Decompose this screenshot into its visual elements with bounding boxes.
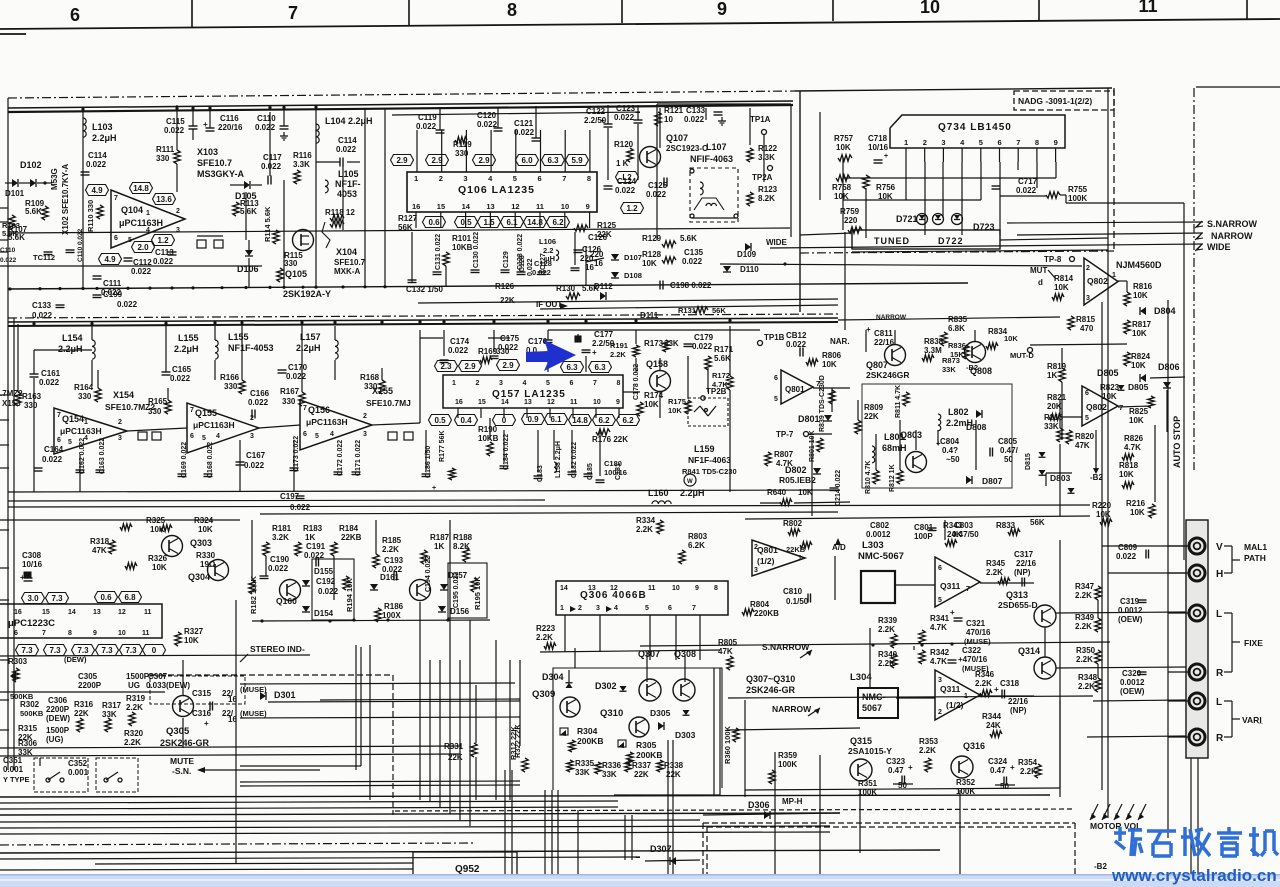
- capacitor C801: [914, 523, 937, 541]
- svg-text:2SA1015-Y: 2SA1015-Y: [848, 746, 892, 756]
- svg-text:Q808: Q808: [970, 366, 992, 376]
- transistor Q314: [1018, 646, 1056, 679]
- node hex 6.2c: [617, 415, 640, 426]
- svg-text:2.2K: 2.2K: [126, 703, 143, 712]
- IC Q734 LB1450: [890, 115, 1065, 148]
- svg-text:D101: D101: [5, 189, 25, 198]
- svg-text:0.1/50: 0.1/50: [786, 597, 809, 606]
- node hex 6.1: [501, 217, 524, 228]
- Q106 bottom pin stubs: [416, 212, 590, 228]
- wire q807 area: [838, 232, 1060, 345]
- svg-text:D722: D722: [938, 236, 964, 246]
- svg-text:0.022: 0.022: [268, 564, 289, 573]
- svg-text:56K: 56K: [398, 223, 413, 232]
- resistor R316: [74, 700, 94, 732]
- Q157 bottom pin stubs: [458, 408, 619, 418]
- svg-text:0: 0: [152, 646, 157, 655]
- svg-text:R318: R318: [90, 537, 110, 546]
- svg-text:2.2K: 2.2K: [1076, 655, 1093, 664]
- wire if verticals: [18, 330, 420, 492]
- svg-text:R326: R326: [148, 554, 168, 563]
- resistor R327: [175, 627, 204, 646]
- resistor R755: [1000, 185, 1184, 203]
- svg-text:L106: L106: [539, 237, 556, 246]
- svg-text:14.8: 14.8: [527, 218, 543, 227]
- connector jack L4: [1189, 693, 1205, 709]
- resistor R172: [712, 371, 733, 390]
- IC uPC1223C box: [0, 604, 162, 638]
- svg-text:R818: R818: [1119, 461, 1139, 470]
- IF band bus line 1: [8, 318, 838, 322]
- wire tuned right: [1000, 238, 1108, 240]
- svg-text:0.4?: 0.4?: [942, 446, 958, 455]
- svg-text:C321: C321: [966, 619, 986, 628]
- op-amp Q802 second: [1082, 386, 1118, 426]
- resistor R821: [1047, 393, 1067, 420]
- svg-text:R187: R187: [430, 533, 450, 542]
- svg-text:X155: X155: [372, 386, 393, 396]
- svg-text:330: 330: [496, 347, 510, 356]
- svg-text:2SK246-GR: 2SK246-GR: [160, 738, 210, 748]
- transistor Q307: [638, 649, 661, 701]
- svg-text:S.NARROW: S.NARROW: [1207, 219, 1258, 229]
- svg-text:Q316: Q316: [963, 741, 985, 751]
- node hex 2.9 b: [426, 155, 449, 166]
- svg-text:330: 330: [156, 154, 170, 163]
- wire topleft verticals: [246, 108, 385, 287]
- svg-text:10K: 10K: [642, 259, 657, 268]
- svg-text:0.022: 0.022: [153, 257, 174, 266]
- svg-text:R359: R359: [778, 751, 798, 760]
- svg-text:X153: X153: [2, 399, 21, 408]
- svg-text:7: 7: [1016, 138, 1020, 147]
- node hex 2.9 d: [459, 361, 482, 372]
- capacitor C113: [153, 248, 177, 266]
- svg-text:5: 5: [68, 439, 72, 446]
- svg-text:10K: 10K: [1119, 470, 1134, 479]
- svg-text:1K: 1K: [305, 533, 315, 542]
- motor vol arrows: [1090, 804, 1146, 820]
- diode D723: [973, 222, 995, 232]
- left edge vertical: [8, 98, 14, 770]
- svg-text:C168 0.022: C168 0.022: [207, 442, 214, 478]
- Q306 top pins: [560, 585, 718, 592]
- svg-text:0.4: 0.4: [460, 416, 472, 425]
- diode D112: [594, 282, 613, 300]
- IC Q306 4066B box: [556, 581, 728, 615]
- bottom bus 2: [0, 801, 618, 803]
- svg-text:C809: C809: [1118, 543, 1138, 552]
- svg-text:C116: C116: [220, 114, 239, 123]
- svg-text:C122: C122: [586, 107, 606, 116]
- filter NFIF-4063 label: [690, 154, 733, 164]
- svg-text:5: 5: [645, 605, 649, 612]
- capacitor C191: [304, 542, 326, 567]
- svg-text:14: 14: [462, 202, 471, 211]
- Q734 pin numbers: [904, 138, 1058, 147]
- capacitor C133b: [684, 106, 726, 125]
- node hex 0.6b: [95, 592, 118, 603]
- resistor R341: [919, 614, 950, 644]
- svg-text:MP-H: MP-H: [782, 797, 803, 806]
- svg-text:2: 2: [923, 138, 927, 147]
- resistor R352: [956, 778, 976, 796]
- wire q801 out: [812, 388, 850, 516]
- capacitor C718: [868, 134, 889, 163]
- svg-text:0.001: 0.001: [68, 768, 89, 777]
- node hex 6.3 b: [589, 362, 612, 373]
- svg-text:C192: C192: [316, 577, 336, 586]
- Q106 bottom pin numbers: [412, 202, 590, 211]
- svg-text:IF OUT: IF OUT: [536, 300, 562, 309]
- svg-text:2SK246-GR: 2SK246-GR: [746, 685, 796, 695]
- resistor R128: [642, 250, 676, 268]
- svg-text:R341: R341: [930, 614, 950, 623]
- svg-text:0.022: 0.022: [290, 503, 311, 512]
- svg-text:L155: L155: [228, 332, 249, 342]
- inductor L105: [325, 169, 361, 199]
- svg-text:Q155: Q155: [195, 408, 217, 418]
- svg-text:8: 8: [587, 174, 591, 183]
- capacitor C322: [948, 646, 990, 673]
- svg-text:C718: C718: [868, 134, 888, 143]
- svg-text:TP2A: TP2A: [752, 173, 773, 182]
- resistor R346: [975, 670, 995, 696]
- svg-text:2.2K: 2.2K: [986, 568, 1003, 577]
- svg-text:R171: R171: [714, 345, 734, 354]
- svg-text:NARROW: NARROW: [1211, 231, 1253, 241]
- svg-text:10: 10: [118, 630, 126, 637]
- svg-text:14.8: 14.8: [133, 184, 149, 193]
- svg-text:Q313: Q313: [1006, 590, 1028, 600]
- Q311a pins: [938, 565, 942, 604]
- svg-text:Q734 LB1450: Q734 LB1450: [938, 122, 1012, 133]
- svg-text:7: 7: [288, 3, 298, 23]
- svg-text:MXK-A: MXK-A: [334, 267, 360, 276]
- svg-text:4: 4: [523, 380, 527, 387]
- svg-text:0.022: 0.022: [244, 461, 265, 470]
- svg-text:10: 10: [664, 115, 673, 124]
- svg-text:R174: R174: [644, 391, 664, 400]
- svg-text:10: 10: [920, 0, 940, 17]
- resistor R810: [865, 461, 879, 494]
- svg-text:(MUSE): (MUSE): [240, 685, 267, 694]
- resistor R758: [832, 175, 852, 201]
- svg-text:C164: C164: [44, 445, 64, 454]
- svg-text:2.2μH: 2.2μH: [174, 344, 199, 354]
- svg-text:2.2K: 2.2K: [919, 746, 936, 755]
- svg-text:1 K: 1 K: [616, 159, 629, 168]
- svg-text:R820: R820: [1075, 432, 1095, 441]
- svg-text:0.022: 0.022: [131, 267, 152, 276]
- label TP-80: [1044, 255, 1075, 264]
- svg-text:0.5: 0.5: [460, 218, 472, 227]
- svg-text:R129: R129: [642, 234, 662, 243]
- svg-text:R302: R302: [20, 700, 40, 709]
- svg-text:1500P: 1500P: [126, 672, 150, 681]
- bottom bus 6: [0, 826, 830, 828]
- capacitor C119: [416, 107, 445, 133]
- svg-text:0.022: 0.022: [0, 257, 17, 264]
- svg-text:5: 5: [774, 396, 778, 403]
- diode D301: [260, 690, 296, 700]
- wire mute rails: [240, 647, 520, 786]
- svg-text:3: 3: [250, 433, 254, 440]
- svg-text:R190: R190: [478, 425, 498, 434]
- node 4.9 hex: [86, 185, 109, 196]
- node hex 0.4: [455, 415, 478, 426]
- svg-text:C322: C322: [962, 646, 982, 655]
- svg-text:R803: R803: [688, 532, 708, 541]
- ground bus line: [8, 283, 968, 289]
- svg-text:330: 330: [284, 259, 298, 268]
- svg-text:D108: D108: [624, 271, 642, 280]
- svg-text:L103: L103: [92, 122, 113, 132]
- svg-text:330: 330: [24, 401, 38, 410]
- svg-text:6.3: 6.3: [566, 363, 578, 372]
- label NJM4560D: [1116, 260, 1162, 270]
- capacitor C180: [596, 459, 627, 483]
- wire tuner row: [852, 250, 1108, 252]
- svg-text:10K: 10K: [834, 192, 849, 201]
- svg-text:Q158: Q158: [646, 359, 668, 369]
- label X1D2: [0, 247, 17, 264]
- resistor R186: [375, 602, 404, 622]
- node hex 0: [493, 415, 516, 426]
- svg-text:6: 6: [938, 565, 942, 572]
- node hex 0.5b: [429, 415, 452, 426]
- capacitor C131: [433, 234, 443, 275]
- label 2SK192A-Y: [283, 289, 331, 299]
- svg-text:C132 1/50: C132 1/50: [406, 285, 443, 294]
- svg-text:C193: C193: [384, 556, 404, 565]
- svg-text:Q156: Q156: [308, 405, 330, 415]
- svg-text:10K: 10K: [668, 406, 682, 415]
- capacitor C182: [568, 442, 579, 478]
- wire if chain h1: [34, 350, 420, 431]
- diode D111: [640, 311, 659, 320]
- svg-text:11: 11: [144, 609, 152, 616]
- resistor R187: [421, 533, 450, 564]
- svg-text:3.3M: 3.3M: [924, 346, 942, 355]
- svg-text:R810 4.7K: R810 4.7K: [865, 461, 872, 494]
- label AUTO STOP: [1172, 416, 1182, 468]
- svg-text:14.8: 14.8: [572, 416, 588, 425]
- svg-text:4.7K: 4.7K: [1124, 443, 1141, 452]
- node hex 7.3a: [46, 593, 69, 604]
- resistor R873: [942, 356, 978, 374]
- svg-text:1: 1: [452, 380, 456, 387]
- svg-text:UG: UG: [128, 681, 140, 690]
- svg-text:W: W: [687, 479, 693, 485]
- svg-text:R166: R166: [220, 373, 240, 382]
- inductor L158: [554, 441, 562, 478]
- resistor R181: [263, 524, 292, 556]
- svg-text:6.8: 6.8: [124, 593, 136, 602]
- svg-text:R317: R317: [102, 701, 122, 710]
- svg-text:5.6K: 5.6K: [714, 354, 731, 363]
- resistor R173: [644, 339, 679, 352]
- svg-text:1: 1: [414, 174, 418, 183]
- resistor R815: [1068, 315, 1096, 333]
- svg-text:10K: 10K: [1131, 361, 1146, 370]
- svg-text:μPC1163H: μPC1163H: [119, 218, 163, 228]
- uPC1223C top pins: [14, 609, 152, 616]
- svg-text:+: +: [600, 116, 605, 125]
- resistor R110: [86, 200, 103, 232]
- svg-text:C199: C199: [103, 290, 123, 299]
- svg-text:C110: C110: [257, 114, 276, 123]
- svg-text:C126: C126: [582, 245, 602, 254]
- svg-text:D801: D801: [798, 414, 820, 424]
- svg-text:R640: R640: [767, 488, 787, 497]
- svg-text:2200P: 2200P: [46, 705, 70, 714]
- svg-text:R354: R354: [1018, 758, 1038, 767]
- svg-text:50: 50: [1000, 782, 1009, 791]
- inductor L103: [83, 118, 117, 143]
- capacitor C317: [1014, 550, 1037, 587]
- svg-text:C190: C190: [270, 555, 290, 564]
- bottom bus 1: [0, 795, 1050, 797]
- wire decoder verticals2: [356, 640, 496, 800]
- svg-text:C120: C120: [477, 111, 497, 120]
- svg-text:R757: R757: [834, 134, 854, 143]
- svg-text:5: 5: [513, 174, 517, 183]
- capacitor C135: [682, 248, 704, 266]
- resistor R113: [233, 199, 259, 216]
- svg-text:1500P: 1500P: [46, 726, 70, 735]
- capacitor C165: [162, 365, 192, 383]
- svg-text:10K: 10K: [184, 636, 199, 645]
- resistor R322: [513, 724, 528, 772]
- svg-text:0.022: 0.022: [261, 162, 282, 171]
- fet switch block outline: [553, 648, 722, 790]
- svg-text:L: L: [1216, 609, 1222, 620]
- capacitor C126: [571, 245, 602, 272]
- svg-text:0.47: 0.47: [990, 766, 1006, 775]
- svg-text:2SK246GR: 2SK246GR: [866, 370, 909, 380]
- right vertical bus b: [1107, 88, 1109, 818]
- svg-text:330: 330: [78, 392, 92, 401]
- capacitor C323: [886, 757, 913, 790]
- op-amp Q802 first: [1084, 258, 1118, 305]
- node hex 6.3 a: [561, 362, 584, 373]
- svg-text:R176 22K: R176 22K: [592, 435, 628, 444]
- svg-text:33K: 33K: [602, 770, 617, 779]
- svg-text:0.022: 0.022: [448, 346, 469, 355]
- svg-text:C133: C133: [32, 301, 52, 310]
- svg-text:3.3K: 3.3K: [293, 160, 310, 169]
- svg-text:Y TYPE: Y TYPE: [3, 775, 30, 784]
- inductor L154: [58, 326, 95, 386]
- svg-text:6: 6: [190, 433, 194, 440]
- resistor R126: [495, 282, 515, 305]
- watermark glyphs: [1114, 827, 1278, 856]
- svg-text:R353: R353: [919, 737, 939, 746]
- svg-text:2.2μH: 2.2μH: [680, 488, 705, 498]
- svg-text:2: 2: [476, 380, 480, 387]
- svg-text:8: 8: [617, 380, 621, 387]
- svg-text:Q314: Q314: [1018, 646, 1040, 656]
- svg-text:10K: 10K: [198, 525, 213, 534]
- resistor R122: [747, 144, 778, 162]
- capacitor C717: [992, 177, 1038, 195]
- svg-text:R350: R350: [1076, 646, 1096, 655]
- capacitor C177: [575, 330, 615, 357]
- svg-text:47K: 47K: [1075, 441, 1090, 450]
- crystal pair Q154 out: [138, 432, 161, 440]
- svg-text:C179: C179: [694, 333, 714, 342]
- svg-text:330: 330: [224, 382, 238, 391]
- svg-text:220/16: 220/16: [218, 123, 243, 132]
- svg-text:R349: R349: [1075, 613, 1095, 622]
- svg-text:C119: C119: [418, 113, 437, 122]
- svg-text:-B2: -B2: [1090, 473, 1103, 482]
- svg-text:22K: 22K: [864, 412, 879, 421]
- resistor R315: [18, 724, 38, 742]
- svg-text:6: 6: [538, 174, 542, 183]
- svg-text:+: +: [884, 153, 888, 160]
- wire mid rail 644: [640, 642, 1110, 647]
- svg-text:C111: C111: [103, 279, 122, 288]
- B+ bus line 2: [8, 105, 793, 112]
- resistor R801: [809, 430, 823, 462]
- ruler label 11: [1138, 0, 1157, 16]
- svg-text:C110 0.022: C110 0.022: [77, 228, 84, 262]
- svg-text:NF1F-: NF1F-: [335, 179, 361, 189]
- svg-text:R337: R337: [632, 761, 652, 770]
- svg-text:0.022: 0.022: [615, 186, 636, 195]
- svg-text:0.022: 0.022: [170, 374, 191, 383]
- svg-text:0: 0: [502, 416, 507, 425]
- diode D802 zener: [779, 465, 821, 485]
- svg-text:μPC1223C: μPC1223C: [8, 618, 55, 629]
- transistor Q160: [276, 580, 301, 607]
- svg-text:+: +: [866, 325, 871, 334]
- svg-text:3: 3: [176, 227, 180, 234]
- node hex 0.6: [423, 217, 446, 228]
- resistor R306: [18, 739, 38, 757]
- svg-text:D802: D802: [785, 465, 807, 475]
- capacitor C185: [584, 463, 595, 480]
- svg-text:R315: R315: [18, 724, 38, 733]
- node hex 5.9: [566, 155, 589, 166]
- svg-text:NJM4560D: NJM4560D: [1116, 260, 1162, 270]
- IC L304 NMC-5067: [850, 672, 898, 718]
- bottom bus 11: [0, 869, 413, 870]
- wire D301 out: [240, 683, 520, 718]
- svg-text:11: 11: [1138, 0, 1157, 16]
- svg-text:C810: C810: [783, 587, 803, 596]
- svg-text:R334: R334: [636, 516, 656, 525]
- wire 22k line: [418, 299, 838, 303]
- label MAIN PATH: [1232, 542, 1267, 573]
- resistor R167: [280, 387, 305, 406]
- svg-text:0.022: 0.022: [527, 258, 534, 276]
- capacitor C197: [280, 492, 311, 512]
- svg-text:R114 5.6K: R114 5.6K: [263, 206, 272, 242]
- resistor R164: [74, 383, 101, 402]
- wire right edge line: [1196, 86, 1280, 88]
- svg-text:330: 330: [455, 149, 469, 158]
- diode D305: [650, 708, 671, 730]
- svg-text:1: 1: [560, 605, 564, 612]
- svg-text:2.2μH: 2.2μH: [92, 133, 117, 143]
- svg-text:(OEW): (OEW): [1120, 687, 1145, 696]
- svg-text:R344: R344: [982, 712, 1002, 721]
- label S.NARROW: [1207, 219, 1258, 229]
- resistor R335: [567, 759, 595, 777]
